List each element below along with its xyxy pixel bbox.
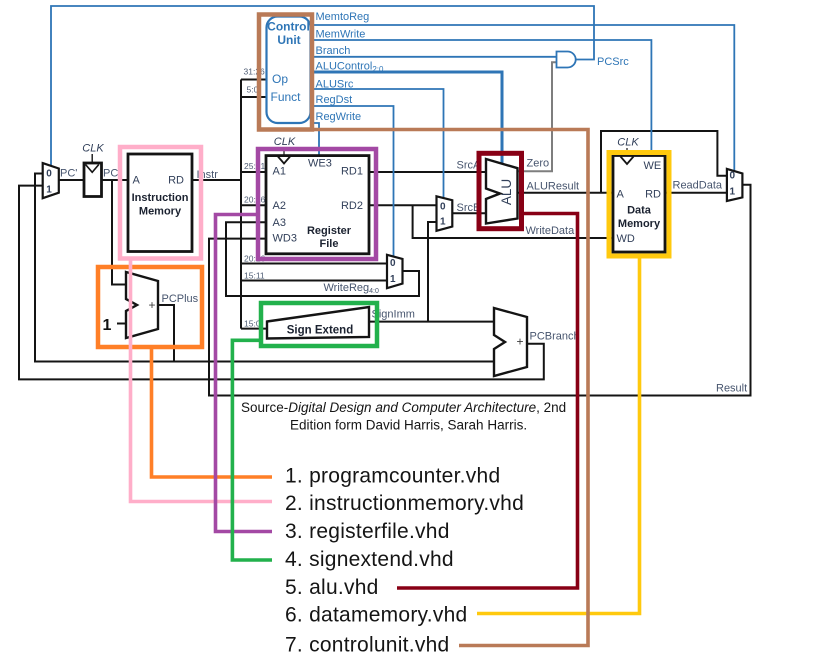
- highlight box instructionmemory (pink): [120, 147, 201, 259]
- legend line signextend (green): [232, 340, 272, 560]
- svg-text:A3: A3: [273, 217, 286, 229]
- wire SrcA (RD1 to ALU): [369, 171, 486, 173]
- svg-text:ALUSrc: ALUSrc: [316, 79, 354, 91]
- highlight box registerfile (purple): [258, 149, 376, 259]
- svg-text:MemtoReg: MemtoReg: [316, 11, 370, 23]
- svg-text:3. registerfile.vhd: 3. registerfile.vhd: [285, 520, 450, 543]
- highlight box signextend (green): [261, 303, 377, 346]
- svg-text:Edition form David Harris, Sar: Edition form David Harris, Sarah Harris.: [290, 418, 527, 433]
- svg-text:RD: RD: [168, 175, 184, 187]
- adder PCBranch: [494, 308, 527, 376]
- svg-text:Data: Data: [627, 205, 652, 217]
- wire Funct tap 5:0 into control unit: [241, 96, 267, 98]
- legend line controlunit (brown): [311, 130, 588, 646]
- wire PC (register to instruction memory): [102, 179, 129, 181]
- wire A2 tap 20:16: [241, 204, 266, 206]
- wire Zero (ALU to AND gate): [518, 62, 557, 171]
- wire PCPlus4 return (adder out to PC mux input 0): [35, 174, 174, 362]
- wire ALUSrc (to SrcB mux select): [311, 89, 444, 200]
- wire 15:11 tap to WriteReg mux input 1: [241, 280, 387, 282]
- control unit block: [267, 17, 311, 124]
- svg-text:WD: WD: [617, 233, 635, 245]
- svg-text:0: 0: [390, 258, 396, 269]
- svg-text:Branch: Branch: [316, 45, 351, 57]
- svg-text:+: +: [148, 298, 155, 312]
- highlight box alu (dark red): [479, 153, 522, 228]
- svg-text:WD3: WD3: [273, 232, 297, 244]
- instruction memory block: [128, 154, 192, 252]
- mux WriteReg (0/1): [387, 255, 403, 288]
- legend line programcounter (orange): [152, 349, 273, 477]
- svg-text:Control: Control: [267, 20, 310, 34]
- legend line instructionmemory (pink): [131, 261, 273, 502]
- svg-text:20:16: 20:16: [244, 194, 266, 204]
- svg-text:CLK: CLK: [617, 137, 639, 149]
- svg-text:+: +: [516, 335, 523, 349]
- svg-text:ReadData: ReadData: [673, 179, 723, 191]
- wire Instr vertical bus: [240, 80, 242, 329]
- svg-text:Source-Digital Design and Comp: Source-Digital Design and Computer Archi…: [241, 400, 566, 415]
- svg-text:A2: A2: [273, 200, 286, 212]
- data memory block: [613, 137, 665, 253]
- wire Op tap 31:26 into control unit: [241, 79, 267, 81]
- wire RegWrite (to register file WE3): [311, 123, 319, 156]
- svg-text:PC: PC: [103, 168, 118, 180]
- wire PCPlus4 to branch adder lower input: [174, 361, 494, 363]
- wire A1 tap 25:21: [241, 171, 266, 173]
- svg-text:RegDst: RegDst: [316, 94, 353, 106]
- wire ReadData (data memory RD to result mux input 1): [665, 192, 727, 194]
- svg-text:PCSrc: PCSrc: [597, 56, 629, 68]
- svg-text:RD2: RD2: [341, 200, 363, 212]
- wire constant 1 into adder: [117, 323, 126, 325]
- wire ALUResult (ALU to data memory A): [518, 192, 614, 194]
- wire WriteReg4:0 loop (mux out to RF A3): [226, 222, 419, 296]
- svg-text:PC': PC': [60, 168, 77, 180]
- svg-text:File: File: [320, 238, 339, 250]
- svg-text:1: 1: [440, 217, 446, 228]
- svg-text:PCBranch: PCBranch: [530, 331, 580, 343]
- highlight box datamemory (yellow): [609, 153, 669, 257]
- svg-text:15:0: 15:0: [244, 319, 261, 329]
- svg-text:WE3: WE3: [308, 158, 332, 170]
- svg-text:2. instructionmemory.vhd: 2. instructionmemory.vhd: [285, 492, 524, 515]
- svg-text:Memory: Memory: [618, 218, 661, 230]
- wire RegDst (to WriteReg mux select): [311, 106, 394, 258]
- sign extend block: [267, 307, 369, 339]
- svg-text:4. signextend.vhd: 4. signextend.vhd: [285, 548, 454, 571]
- legend line datamemory (yellow): [477, 257, 640, 614]
- svg-text:ALU: ALU: [499, 179, 514, 205]
- svg-text:WE: WE: [644, 160, 662, 172]
- svg-text:0: 0: [440, 202, 446, 213]
- wire 15:0 tap into sign extend: [241, 328, 267, 330]
- wire SignImm (sign extend out to branch adder, branch up to SrcB mux input 1): [369, 222, 494, 322]
- svg-text:Result: Result: [716, 383, 747, 395]
- svg-text:CLK: CLK: [82, 143, 104, 155]
- svg-text:0: 0: [730, 170, 736, 181]
- svg-text:Unit: Unit: [277, 33, 300, 47]
- mux Result (0/1): [727, 169, 743, 201]
- svg-text:ALUResult: ALUResult: [527, 181, 580, 193]
- mux SrcB (0/1): [437, 196, 453, 231]
- wire MemWrite (to data memory WE): [311, 40, 651, 156]
- wire PCBranch return (branch adder out to PC mux input 1): [19, 186, 544, 380]
- svg-text:15:11: 15:11: [244, 270, 265, 280]
- svg-text:Sign Extend: Sign Extend: [287, 325, 353, 337]
- svg-text:1. programcounter.vhd: 1. programcounter.vhd: [285, 465, 500, 488]
- svg-text:PCPlus: PCPlus: [162, 293, 199, 305]
- svg-text:0: 0: [46, 169, 52, 180]
- adder PCPlus: [103, 272, 158, 338]
- svg-text:Funct: Funct: [271, 90, 302, 104]
- legend line registerfile (purple): [216, 215, 273, 532]
- wire RD2 to SrcB mux input 0: [369, 204, 437, 206]
- wire PC' (mux to PC register): [59, 179, 85, 181]
- highlight box controlunit (brown): [259, 15, 312, 130]
- svg-text:A1: A1: [273, 166, 286, 178]
- svg-text:RD1: RD1: [341, 166, 363, 178]
- wire PCSrc (AND gate out, around top, down to PC mux select): [51, 6, 594, 166]
- svg-text:5. alu.vhd: 5. alu.vhd: [285, 576, 379, 599]
- register PC: [82, 143, 104, 197]
- svg-text:6. datamemory.vhd: 6. datamemory.vhd: [285, 604, 467, 627]
- ALU U-shape: [486, 159, 518, 224]
- svg-text:RegWrite: RegWrite: [316, 111, 362, 123]
- svg-text:1: 1: [390, 274, 396, 285]
- svg-text:Zero: Zero: [527, 158, 550, 170]
- svg-text:MemWrite: MemWrite: [316, 28, 366, 40]
- svg-text:Memory: Memory: [139, 206, 182, 218]
- wire ALUControl 2:0 bus (to ALU): [311, 72, 502, 163]
- wire 20:16 tap to WriteReg mux input 0: [241, 263, 387, 265]
- AND gate PCSrc: [557, 52, 576, 68]
- svg-text:Op: Op: [272, 72, 288, 86]
- wire Result loop (result mux out to RF WD3): [209, 185, 751, 396]
- register file block: [266, 136, 369, 254]
- svg-text:1: 1: [103, 317, 112, 334]
- svg-text:Instruction: Instruction: [132, 192, 189, 204]
- svg-text:25:21: 25:21: [244, 161, 266, 171]
- svg-text:1: 1: [46, 185, 52, 196]
- svg-text:Register: Register: [307, 225, 352, 237]
- highlight box programcounter (orange): [98, 267, 202, 347]
- wire ALUResult bypass over data memory to result mux input 0: [601, 131, 727, 193]
- svg-text:A: A: [133, 175, 141, 187]
- legend line alu (dark red): [397, 214, 578, 589]
- wire PC tap down to PCPlus adder top input: [112, 180, 126, 285]
- svg-text:RD: RD: [645, 189, 661, 201]
- wire Instr (instruction memory RD to bus): [192, 179, 241, 181]
- wire SrcB (mux out to ALU): [452, 212, 486, 214]
- svg-text:WriteData: WriteData: [526, 225, 576, 237]
- svg-text:31:26: 31:26: [244, 67, 266, 77]
- mux PC source (0/1): [43, 163, 59, 198]
- svg-text:A: A: [617, 189, 625, 201]
- svg-text:1: 1: [730, 186, 736, 197]
- svg-text:CLK: CLK: [274, 136, 296, 148]
- wire MemtoReg (to result mux select): [311, 25, 734, 171]
- wire WriteData (RD2 branch to data memory WD): [413, 205, 613, 238]
- wire Branch (to AND gate): [311, 56, 557, 58]
- svg-text:7. controlunit.vhd: 7. controlunit.vhd: [285, 634, 449, 657]
